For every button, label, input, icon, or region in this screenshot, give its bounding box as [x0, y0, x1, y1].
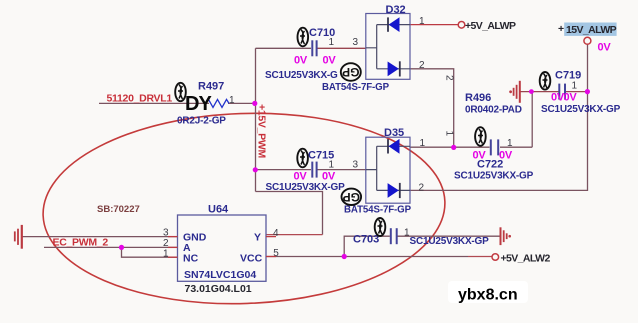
svg-text:1: 1: [229, 95, 235, 106]
wire C710 row left: [256, 47, 312, 49]
svg-text:D32: D32: [386, 4, 406, 16]
svg-text:73.01G04.L01: 73.01G04.L01: [185, 283, 252, 295]
wire R496 row: [521, 91, 588, 93]
svg-text:3: 3: [353, 160, 359, 171]
svg-text:NC: NC: [183, 253, 199, 265]
watermark ybx8.cn: [448, 281, 528, 303]
svg-text:DY: DY: [185, 93, 212, 115]
capacitor C715: [312, 162, 316, 178]
svg-text:GP: GP: [342, 65, 359, 79]
capacitor C703: [391, 228, 397, 244]
wire D32 pin1 to +5V_ALWP: [410, 24, 458, 26]
wire EC_PWM_2 row: [44, 246, 178, 248]
wire D35 pin1 / C722 row: [410, 146, 532, 148]
svg-text:0R0402-PAD: 0R0402-PAD: [465, 105, 522, 116]
svg-text:2: 2: [444, 75, 455, 81]
svg-text:51120_DRVL1: 51120_DRVL1: [107, 93, 173, 105]
svg-text:D35: D35: [384, 127, 404, 139]
svg-text:0V: 0V: [598, 42, 612, 54]
port +5V_ALW2: [492, 254, 499, 261]
svg-text:SN74LVC1G04: SN74LVC1G04: [184, 269, 256, 281]
stamp oval above C710: [298, 28, 309, 47]
stamp GP circle near BAT54S D32: [341, 63, 361, 81]
junction C719/+15V_ALWP: [585, 89, 590, 94]
svg-text:+: +: [558, 23, 564, 35]
svg-text:SB:70227: SB:70227: [97, 204, 140, 215]
svg-text:+15V_PWM: +15V_PWM: [256, 104, 268, 158]
svg-text:1: 1: [420, 138, 426, 149]
junction EC_PWM_2: [119, 245, 124, 250]
diode D35 (BAT54S): [344, 127, 426, 216]
wire EC branch to pin1: [122, 247, 178, 257]
port +5V_ALWP: [458, 22, 465, 29]
capacitor C719: [559, 84, 565, 100]
U64 red pin stubs: [168, 237, 276, 258]
wire 51120_DRVL1 to R497: [99, 102, 209, 104]
svg-text:3: 3: [353, 37, 359, 48]
svg-text:0V: 0V: [322, 171, 336, 183]
stamp GP circle near BAT54S D35: [342, 189, 362, 205]
ground/pad symbol right of C703: [501, 227, 512, 245]
wire C722 row up to R496 row: [531, 92, 533, 148]
wire R497 to +15V_PWM junction: [228, 102, 255, 104]
wire +15V_ALWP vertical down to D35 pin2 row: [410, 45, 588, 191]
svg-text:1: 1: [444, 131, 455, 137]
stamp oval above C719: [540, 72, 551, 90]
svg-text:1: 1: [329, 37, 335, 48]
svg-text:0V: 0V: [294, 171, 308, 183]
svg-text:BAT54S-7F-GP: BAT54S-7F-GP: [344, 205, 412, 216]
svg-text:2: 2: [419, 60, 425, 71]
wire GND row: [23, 236, 178, 238]
svg-text:0V: 0V: [294, 55, 308, 67]
IC U64: [163, 204, 279, 296]
junction R497/+15V_PWM: [252, 101, 257, 106]
resistor R497: [206, 99, 229, 107]
wire D32 pin2 right and down: [410, 69, 454, 147]
svg-text:0V: 0V: [323, 55, 337, 67]
resistor R496 pad symbol: [509, 81, 520, 103]
svg-text:2: 2: [419, 183, 425, 194]
svg-text:VCC: VCC: [240, 253, 263, 265]
diode D32 (BAT54S): [322, 4, 425, 93]
svg-text:U64: U64: [208, 204, 229, 216]
svg-text:+5V_ALW2: +5V_ALW2: [501, 253, 551, 265]
junction VCC/C703: [342, 254, 347, 259]
junction R496/C719: [529, 89, 534, 94]
stamp oval left of DY: [175, 83, 186, 101]
svg-text:SC1U25V3KX-GP: SC1U25V3KX-GP: [266, 182, 346, 193]
capacitor C710: [312, 40, 316, 56]
svg-text:ybx8.cn: ybx8.cn: [458, 287, 518, 304]
svg-text:0V: 0V: [564, 92, 578, 104]
wire C703 branch: [344, 236, 500, 256]
svg-text:0R2J-2-GP: 0R2J-2-GP: [177, 116, 226, 127]
svg-text:SC1U25V3KX-G: SC1U25V3KX-G: [265, 70, 338, 81]
svg-text:SC1U25V3KX-GP: SC1U25V3KX-GP: [410, 236, 490, 247]
svg-text:C722: C722: [477, 159, 503, 171]
svg-text:C719: C719: [555, 70, 581, 82]
svg-text:1: 1: [329, 160, 335, 171]
svg-text:C703: C703: [353, 234, 379, 246]
wire +15V_PWM vertical: [255, 48, 257, 191]
wire Y pin routing to C715 row: [256, 192, 323, 235]
svg-text:1: 1: [507, 138, 513, 149]
svg-text:1: 1: [419, 16, 425, 27]
svg-text:15V_ALWP: 15V_ALWP: [566, 24, 617, 36]
svg-text:BAT54S-7F-GP: BAT54S-7F-GP: [322, 82, 390, 93]
wire VCC row to +5V_ALW2: [266, 256, 468, 258]
svg-text:SC1U25V3KX-GP: SC1U25V3KX-GP: [541, 104, 621, 115]
wire C710 to D32 pin3: [317, 47, 366, 49]
stamp oval above C715: [297, 149, 308, 168]
red enclosing ellipse: [40, 107, 448, 311]
svg-text:GP: GP: [343, 190, 360, 204]
svg-text:1: 1: [572, 81, 578, 92]
svg-text:SC1U25V3KX-GP: SC1U25V3KX-GP: [454, 171, 534, 182]
svg-text:EC_PWM_2: EC_PWM_2: [53, 237, 109, 249]
svg-text:Y: Y: [254, 232, 261, 244]
svg-text:R496: R496: [465, 92, 491, 104]
stamp oval above C722: [475, 127, 486, 146]
stamp oval above C703: [375, 218, 386, 236]
ground symbol left: [15, 225, 22, 249]
svg-text:+5V_ALWP: +5V_ALWP: [465, 20, 516, 32]
capacitor C722: [491, 139, 498, 155]
junction C715 row: [253, 167, 258, 172]
junction D35 pin1/C722: [451, 145, 456, 150]
wire C715 row: [256, 169, 366, 171]
svg-text:R497: R497: [198, 81, 224, 93]
